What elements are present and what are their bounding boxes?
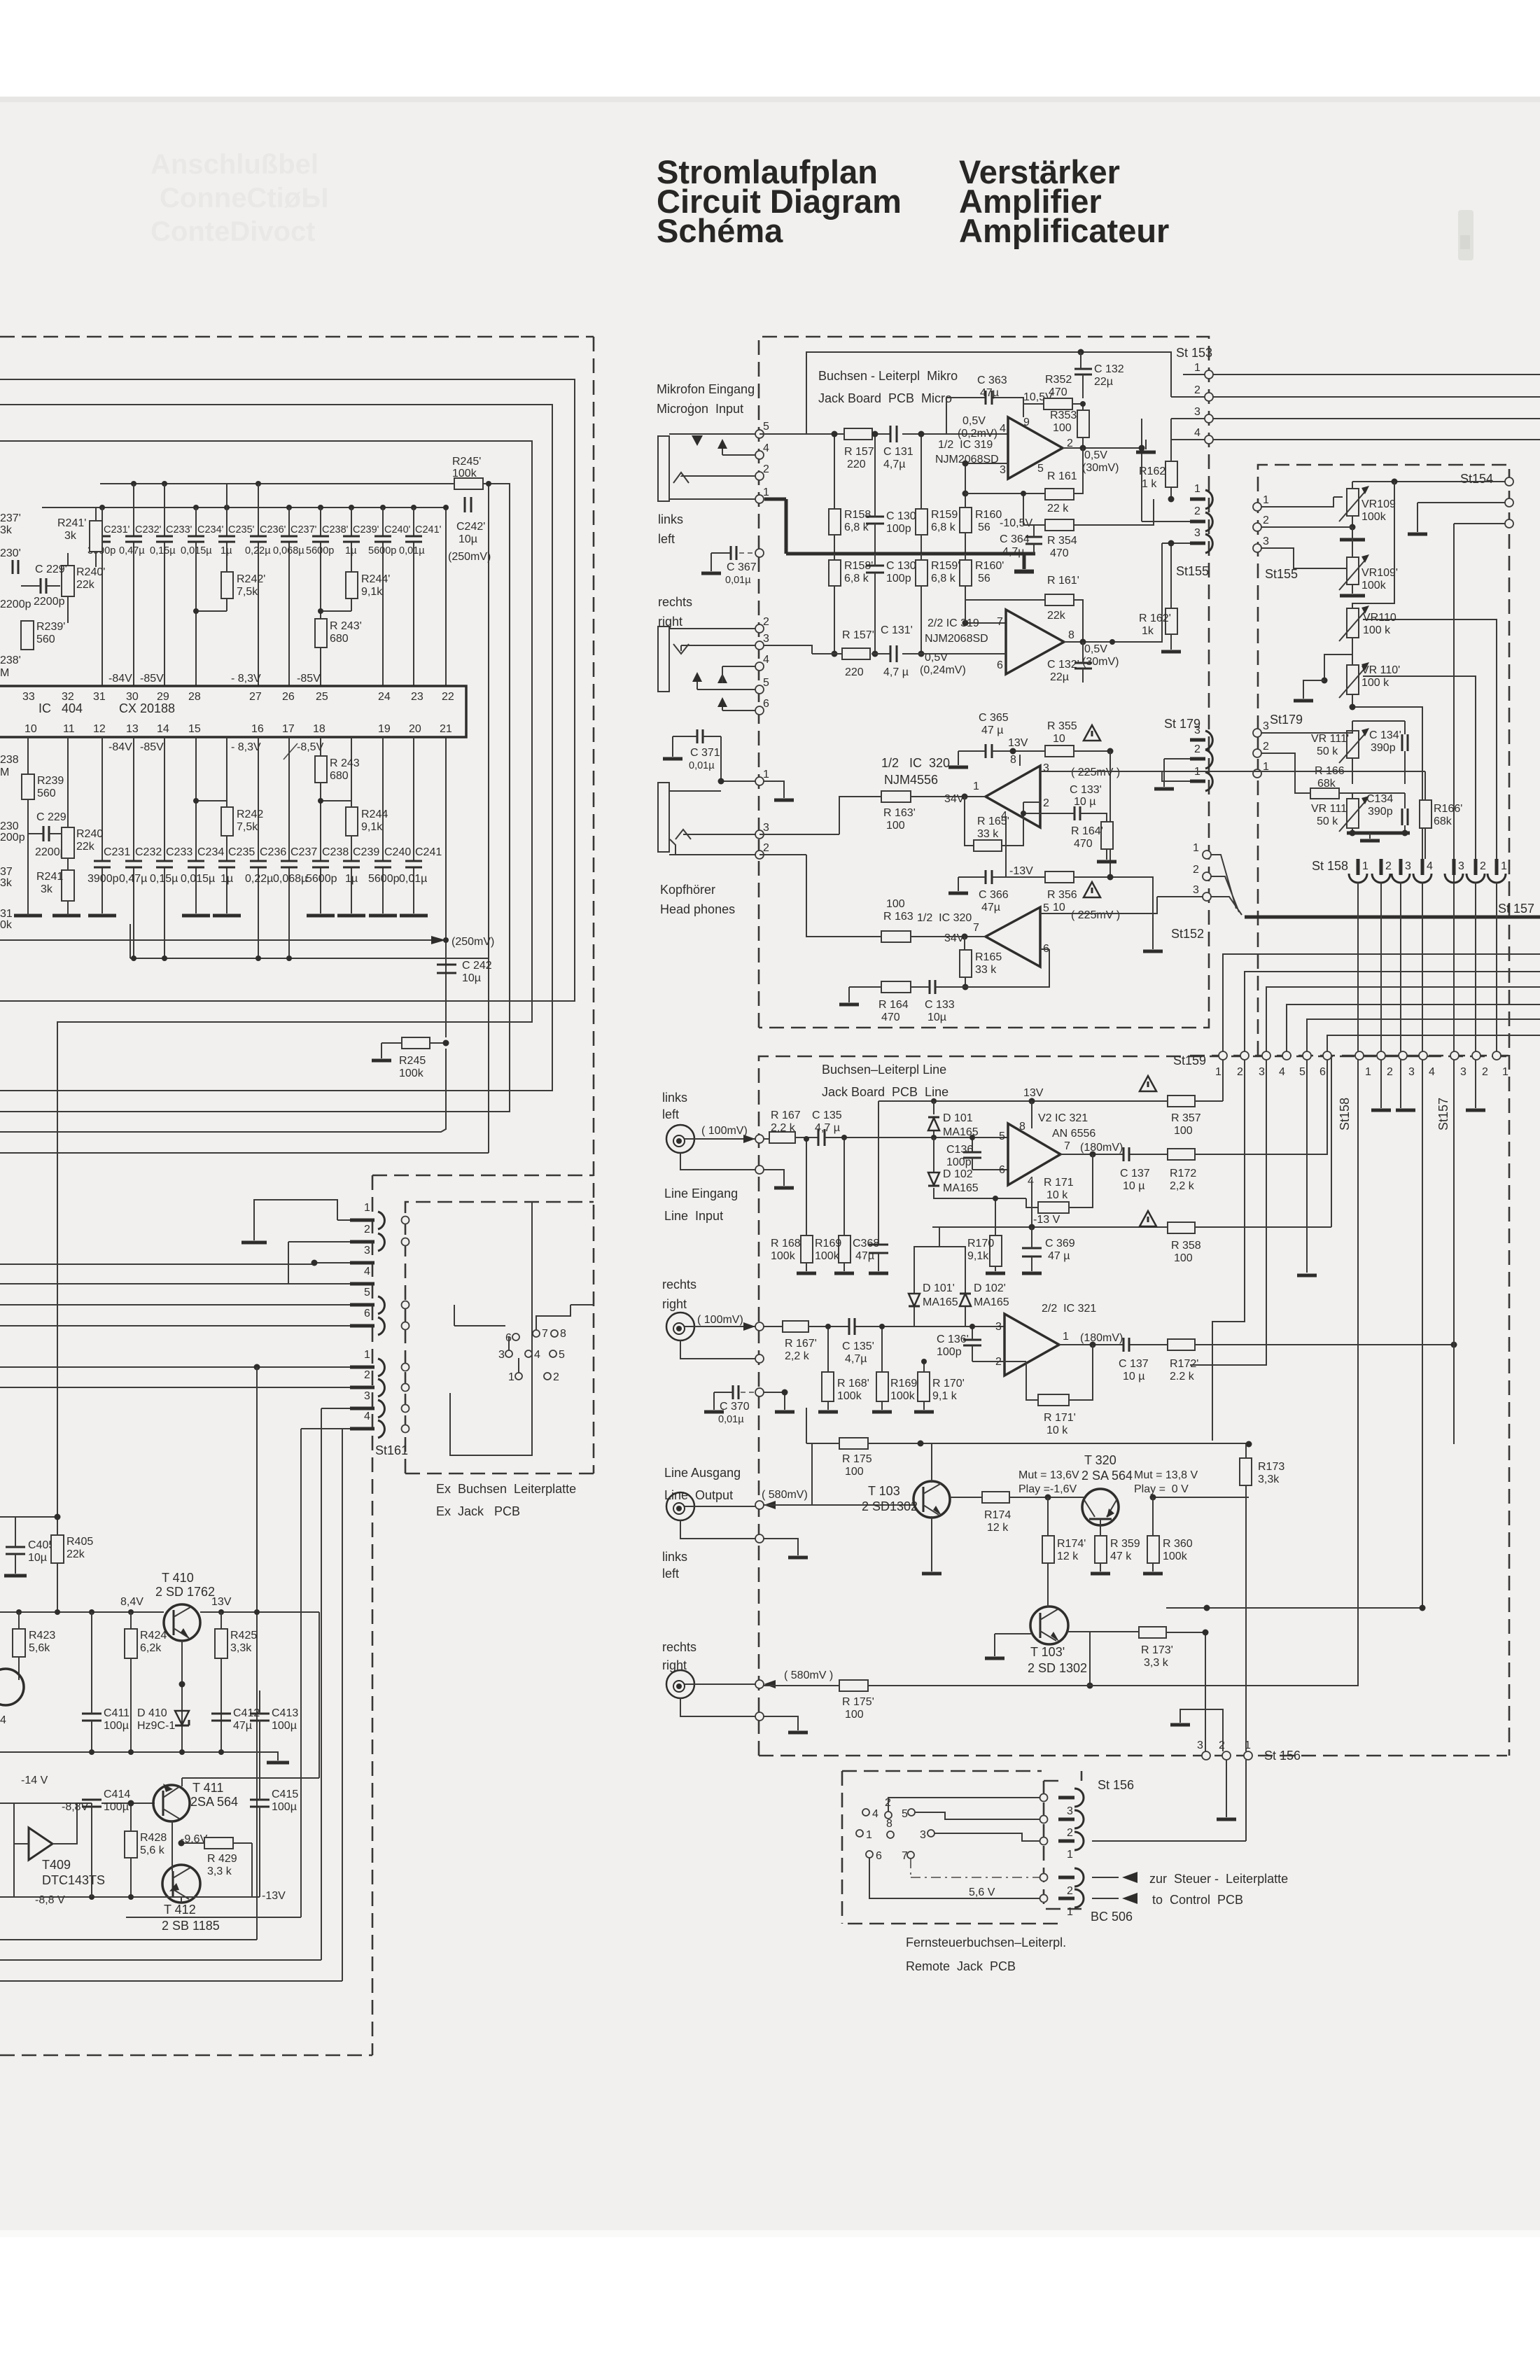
svg-text:D 102': D 102' bbox=[974, 1282, 1006, 1294]
svg-text:100k: 100k bbox=[1361, 511, 1387, 523]
svg-text:0,47µ: 0,47µ bbox=[119, 873, 147, 885]
svg-text:(0,2mV): (0,2mV) bbox=[958, 428, 997, 440]
svg-text:V2 IC 321: V2 IC 321 bbox=[1038, 1112, 1088, 1124]
svg-text:St155: St155 bbox=[1265, 567, 1298, 581]
svg-text:3: 3 bbox=[364, 1390, 370, 1402]
svg-text:C241: C241 bbox=[415, 846, 442, 858]
580mV node riser bbox=[764, 1443, 913, 1505]
svg-text:C 229: C 229 bbox=[36, 811, 66, 823]
svg-text:5: 5 bbox=[763, 677, 769, 689]
T410 emitter drop bbox=[179, 1641, 185, 1752]
svg-text:C 133': C 133' bbox=[1070, 784, 1102, 796]
R242' jog wire bbox=[196, 610, 227, 612]
svg-text:C136: C136 bbox=[946, 1144, 973, 1156]
svg-text:100µ: 100µ bbox=[104, 1801, 129, 1813]
svg-text:C415: C415 bbox=[272, 1788, 298, 1800]
svg-text:Jack Board PCB Line: Jack Board PCB Line bbox=[822, 1085, 948, 1099]
svg-text:3: 3 bbox=[1197, 1739, 1203, 1751]
capacitor C237' bbox=[273, 524, 317, 556]
C371 cap bbox=[673, 729, 721, 781]
svg-text:links: links bbox=[662, 1091, 687, 1105]
R244 jog wire bbox=[321, 801, 351, 807]
svg-text:230': 230' bbox=[0, 547, 21, 559]
svg-text:( 100mV): ( 100mV) bbox=[697, 1314, 743, 1326]
svg-text:2: 2 bbox=[1193, 864, 1199, 876]
left dashed box bottom edge bbox=[0, 2054, 372, 2057]
svg-text:VR110: VR110 bbox=[1363, 612, 1396, 624]
R357 riser to pin1 bbox=[1222, 1060, 1224, 1101]
svg-text:Mut = 13,6V: Mut = 13,6V bbox=[1018, 1469, 1079, 1481]
C136 cap bbox=[946, 1135, 1008, 1170]
R157 resistor bbox=[844, 428, 874, 470]
svg-text:C233: C233 bbox=[166, 846, 192, 858]
svg-text:2,2 k: 2,2 k bbox=[1170, 1180, 1195, 1192]
R174' resistor bbox=[1042, 1497, 1086, 1607]
svg-text:5600p: 5600p bbox=[306, 545, 334, 556]
connector footprint circles 3 4 5 bbox=[498, 1349, 565, 1361]
warning triangle mid bbox=[1140, 1211, 1156, 1226]
svg-text:St 156: St 156 bbox=[1098, 1778, 1134, 1792]
R162 resistor bbox=[1139, 440, 1177, 503]
bottom rail bbox=[0, 1894, 260, 1900]
wire bus D with R245' bbox=[0, 484, 510, 1112]
svg-text:1: 1 bbox=[1067, 1906, 1073, 1918]
svg-text:Fernsteuerbuchsen–Leiterpl.: Fernsteuerbuchsen–Leiterpl. bbox=[906, 1935, 1066, 1949]
svg-text:3: 3 bbox=[364, 1245, 370, 1256]
svg-text:56: 56 bbox=[978, 573, 990, 584]
St161 pin 2' bbox=[0, 1369, 384, 1396]
cut labels left edge top bbox=[0, 512, 21, 679]
C130' cap bbox=[866, 554, 918, 657]
svg-text:( 225mV ): ( 225mV ) bbox=[1071, 909, 1120, 921]
C371 ground bbox=[663, 736, 682, 759]
amp1 output wire bbox=[1063, 419, 1145, 521]
C413 cap bbox=[250, 1690, 298, 1752]
svg-text:links: links bbox=[662, 1550, 687, 1564]
svg-text:5,6k: 5,6k bbox=[29, 1642, 50, 1654]
svg-text:3: 3 bbox=[1263, 535, 1269, 547]
svg-text:6: 6 bbox=[876, 1850, 882, 1862]
svg-text:4: 4 bbox=[364, 1410, 370, 1422]
amp4 out to right bbox=[1040, 897, 1203, 913]
svg-text:Hz9C-1: Hz9C-1 bbox=[137, 1720, 175, 1732]
nested closing line 3 bbox=[0, 1959, 321, 1961]
R172 resistor bbox=[1168, 1056, 1327, 1192]
links left label bbox=[662, 1091, 687, 1121]
VR111 pot bbox=[1311, 796, 1369, 833]
svg-text:C241': C241' bbox=[415, 524, 442, 535]
svg-text:Head phones: Head phones bbox=[660, 902, 735, 916]
svg-text:R 168: R 168 bbox=[771, 1238, 801, 1249]
warning triangle upper bbox=[1084, 725, 1100, 741]
svg-text:R 161': R 161' bbox=[1047, 575, 1079, 587]
St158 jack 4 bbox=[1413, 859, 1433, 883]
remote jack 1 bbox=[1058, 1832, 1084, 1861]
D101 diode bbox=[928, 1101, 979, 1140]
St161 pin 3' bbox=[321, 1390, 384, 1449]
svg-text:10µ: 10µ bbox=[28, 1552, 47, 1564]
svg-text:47µ: 47µ bbox=[855, 1250, 874, 1262]
svg-text:R 175: R 175 bbox=[842, 1453, 872, 1465]
svg-text:R 243: R 243 bbox=[330, 757, 360, 769]
svg-text:C 137: C 137 bbox=[1120, 1168, 1150, 1179]
svg-text:2: 2 bbox=[1482, 1066, 1488, 1078]
svg-text:Kopfhörer: Kopfhörer bbox=[660, 883, 715, 897]
resistor R242' bbox=[221, 572, 265, 598]
svg-text:2: 2 bbox=[1043, 797, 1049, 809]
switch circle 3 bbox=[920, 1829, 1040, 1841]
svg-text:R 171': R 171' bbox=[1044, 1412, 1076, 1424]
svg-text:R 163': R 163' bbox=[883, 807, 916, 819]
R166 resistor bbox=[1261, 753, 1352, 799]
svg-text:3,3k: 3,3k bbox=[230, 1642, 252, 1654]
(100mV) label R bbox=[694, 1314, 764, 1331]
R166' resistor bbox=[1420, 771, 1462, 859]
svg-text:R160: R160 bbox=[975, 509, 1002, 521]
svg-text:(180mV): (180mV) bbox=[1080, 1332, 1123, 1344]
svg-text:237': 237' bbox=[0, 512, 21, 524]
svg-text:R240: R240 bbox=[76, 828, 103, 840]
svg-text:St155: St155 bbox=[1176, 564, 1209, 578]
svg-text:0,01µ: 0,01µ bbox=[689, 760, 715, 771]
svg-text:2 SD1302: 2 SD1302 bbox=[862, 1499, 918, 1513]
connector footprint circles 1 2 bbox=[508, 1371, 559, 1383]
T412 transistor bbox=[162, 1821, 220, 1933]
svg-text:R170: R170 bbox=[967, 1238, 994, 1249]
svg-text:22: 22 bbox=[442, 691, 454, 703]
headphone pin1 wire bbox=[669, 778, 794, 801]
svg-text:0,015µ: 0,015µ bbox=[181, 545, 212, 556]
svg-text:C237: C237 bbox=[290, 846, 317, 858]
RCA jack line out L bbox=[666, 1492, 694, 1520]
svg-text:0,015µ: 0,015µ bbox=[181, 873, 215, 885]
svg-text:R241': R241' bbox=[57, 517, 86, 529]
R358 resistor bbox=[1168, 1222, 1201, 1264]
svg-text:C 134': C 134' bbox=[1369, 729, 1401, 741]
svg-text:8,4V: 8,4V bbox=[120, 1596, 143, 1608]
svg-text:100k: 100k bbox=[815, 1250, 840, 1262]
pin2 lower ground bbox=[1217, 1760, 1236, 1819]
svg-text:R 161: R 161 bbox=[1047, 470, 1077, 482]
svg-text:0,01µ: 0,01µ bbox=[399, 873, 427, 885]
svg-text:C 369: C 369 bbox=[1045, 1238, 1075, 1249]
svg-text:3,3 k: 3,3 k bbox=[1144, 1657, 1169, 1669]
St158 jack 3 bbox=[1392, 859, 1411, 883]
T411 top feed bbox=[182, 1752, 319, 1786]
svg-text:VR 111': VR 111' bbox=[1311, 733, 1349, 745]
transistor T408 cut bbox=[0, 1669, 24, 1726]
svg-text:2: 2 bbox=[1194, 384, 1200, 396]
svg-text:7: 7 bbox=[1064, 1140, 1070, 1152]
svg-text:9: 9 bbox=[1023, 416, 1030, 428]
svg-text:26: 26 bbox=[282, 691, 295, 703]
switch circle 4 bbox=[862, 1808, 878, 1820]
VR111' pot bbox=[1261, 728, 1369, 784]
R425 resistor bbox=[215, 1612, 257, 1752]
ghost bleed-through text top-left bbox=[150, 149, 328, 247]
13V rail bbox=[878, 1087, 1223, 1105]
R158 resistor bbox=[829, 431, 871, 554]
capacitor C233' bbox=[150, 524, 192, 556]
Line dashed box bbox=[759, 1056, 1507, 1756]
T409 inverter triangle bbox=[14, 1803, 105, 1897]
svg-text:3: 3 bbox=[1458, 860, 1464, 872]
svg-text:2: 2 bbox=[1387, 1066, 1393, 1078]
svg-text:C232': C232' bbox=[135, 524, 162, 535]
svg-text:1: 1 bbox=[1194, 362, 1200, 374]
svg-text:4: 4 bbox=[1194, 427, 1200, 439]
svg-text:C236': C236' bbox=[260, 524, 286, 535]
svg-text:4: 4 bbox=[364, 1266, 370, 1277]
pin 2 wire bbox=[681, 476, 755, 477]
capacitor C242' bbox=[448, 497, 491, 563]
svg-text:4,7µ: 4,7µ bbox=[1002, 546, 1024, 558]
R171' feedback bbox=[1004, 1345, 1093, 1436]
VR110' out bbox=[1350, 704, 1423, 860]
R352 resistor bbox=[1023, 374, 1083, 409]
svg-text:3: 3 bbox=[1460, 1066, 1466, 1078]
resistor R239 bbox=[22, 737, 64, 916]
inner dashed pin circles bbox=[402, 1217, 409, 1433]
svg-text:ConneCtiøЫ: ConneCtiøЫ bbox=[160, 183, 328, 213]
svg-text:R244': R244' bbox=[361, 573, 390, 585]
R162 ground bbox=[1136, 440, 1156, 452]
resistor R240 bbox=[62, 737, 103, 916]
svg-text:1µ: 1µ bbox=[220, 873, 233, 885]
svg-text:R 354: R 354 bbox=[1047, 535, 1077, 547]
svg-text:1: 1 bbox=[1194, 483, 1200, 495]
svg-text:R242: R242 bbox=[237, 808, 263, 820]
svg-text:3: 3 bbox=[763, 822, 769, 834]
St155 pin3 wire bbox=[1261, 548, 1347, 584]
resistor R245 bbox=[381, 1037, 449, 1079]
C365 ground bbox=[948, 751, 968, 767]
St155 jack 2 bbox=[1142, 505, 1212, 531]
svg-text:4: 4 bbox=[1427, 860, 1433, 872]
svg-text:-8,5V: -8,5V bbox=[297, 741, 324, 753]
svg-text:13V: 13V bbox=[1008, 737, 1028, 749]
svg-text:3900p: 3900p bbox=[87, 873, 119, 885]
svg-text:3: 3 bbox=[1193, 884, 1199, 896]
C366 ground bbox=[948, 877, 968, 893]
svg-text:22 k: 22 k bbox=[1047, 503, 1069, 514]
svg-text:56: 56 bbox=[978, 521, 990, 533]
svg-text:left: left bbox=[662, 1107, 679, 1121]
svg-text:100: 100 bbox=[886, 898, 905, 910]
warning triangle lower bbox=[1084, 882, 1100, 897]
svg-text:2: 2 bbox=[364, 1224, 370, 1235]
svg-text:10: 10 bbox=[1053, 902, 1065, 913]
svg-text:0,01µ: 0,01µ bbox=[718, 1414, 744, 1425]
svg-text:2: 2 bbox=[1067, 1827, 1073, 1839]
C133' cap bbox=[1021, 784, 1107, 822]
resistor R241' bbox=[57, 507, 102, 567]
svg-text:1: 1 bbox=[364, 1349, 370, 1361]
R359 resistor bbox=[1091, 1536, 1140, 1574]
right jack wires bbox=[669, 629, 755, 710]
amp3 supply stubs bbox=[1006, 755, 1020, 877]
svg-text:D 410: D 410 bbox=[137, 1707, 167, 1719]
resistor R241 bbox=[36, 870, 74, 901]
C364 cap bbox=[1000, 525, 1042, 558]
svg-text:1µ: 1µ bbox=[220, 545, 232, 556]
wire bus E second cap bus bbox=[42, 507, 446, 508]
svg-text:220: 220 bbox=[845, 666, 864, 678]
Kopfhörer labels bbox=[660, 883, 735, 916]
svg-text:22k: 22k bbox=[76, 579, 95, 591]
svg-text:Line Ausgang: Line Ausgang bbox=[664, 1466, 741, 1480]
C130 cap bbox=[866, 431, 916, 554]
svg-text:34V: 34V bbox=[944, 793, 965, 805]
svg-text:6,8 k: 6,8 k bbox=[844, 573, 869, 584]
amp4 feedback loop bbox=[965, 949, 1049, 987]
svg-text:9,1k: 9,1k bbox=[967, 1250, 989, 1262]
svg-text:4: 4 bbox=[1429, 1066, 1435, 1078]
capacitor C240' bbox=[368, 524, 411, 556]
inner dashed circles bbox=[1040, 1794, 1048, 1903]
fan line 1 bbox=[1223, 954, 1540, 1051]
capacitor C234' bbox=[181, 524, 224, 556]
svg-text:1: 1 bbox=[1365, 1066, 1371, 1078]
cut labels left edge bottom bbox=[0, 754, 25, 931]
St161 pin 5 bbox=[0, 1287, 384, 1314]
svg-text:100k: 100k bbox=[837, 1390, 862, 1402]
transistor T410 bbox=[155, 1571, 215, 1641]
svg-text:25: 25 bbox=[316, 691, 328, 703]
svg-text:7,5k: 7,5k bbox=[237, 586, 258, 598]
svg-text:1µ: 1µ bbox=[345, 545, 357, 556]
svg-text:100: 100 bbox=[1053, 422, 1072, 434]
svg-text:rechts: rechts bbox=[662, 1277, 696, 1291]
svg-text:R245: R245 bbox=[399, 1055, 426, 1067]
R161' feedback resistor bbox=[965, 575, 1083, 642]
svg-text:2: 2 bbox=[1219, 1739, 1225, 1751]
svg-text:100p: 100p bbox=[886, 573, 911, 584]
svg-text:R240': R240' bbox=[76, 566, 105, 578]
Fernsteuerbuchsen label bbox=[906, 1935, 1066, 1973]
svg-text:T 411: T 411 bbox=[192, 1781, 223, 1795]
T320 transistor bbox=[1081, 1453, 1133, 1536]
line R input wire bbox=[764, 1326, 1004, 1327]
R175 resistor bbox=[839, 1438, 872, 1478]
svg-text:-13V: -13V bbox=[1009, 865, 1033, 877]
R167 resistor bbox=[764, 1109, 818, 1143]
svg-text:R 164': R 164' bbox=[1071, 825, 1103, 837]
svg-text:C240: C240 bbox=[384, 846, 411, 858]
svg-text:R405: R405 bbox=[66, 1536, 93, 1548]
R429 resistor bbox=[178, 1837, 253, 1897]
svg-text:C234': C234' bbox=[197, 524, 224, 535]
T103' emitter ground bbox=[985, 1634, 1031, 1658]
svg-text:C231: C231 bbox=[104, 846, 130, 858]
svg-text:3: 3 bbox=[920, 1829, 926, 1841]
svg-text:-85V: -85V bbox=[297, 673, 321, 685]
R158' resistor bbox=[829, 554, 873, 657]
svg-text:33: 33 bbox=[22, 691, 35, 703]
right jack switch arrows bbox=[692, 666, 727, 710]
svg-text:( 100mV): ( 100mV) bbox=[701, 1125, 748, 1137]
svg-text:2 SD 1762: 2 SD 1762 bbox=[155, 1585, 215, 1599]
svg-text:5,6 k: 5,6 k bbox=[140, 1844, 165, 1856]
svg-text:- 8,3V: - 8,3V bbox=[231, 673, 261, 685]
svg-text:50 k: 50 k bbox=[1317, 815, 1338, 827]
vertical feed x489 bbox=[342, 1429, 350, 1981]
svg-text:R158: R158 bbox=[844, 509, 871, 521]
svg-text:links: links bbox=[658, 512, 683, 526]
grounds under St158 bbox=[1371, 1109, 1485, 1112]
svg-text:R 359: R 359 bbox=[1110, 1538, 1140, 1550]
Buchsen-Leiterpl Line label bbox=[822, 1063, 948, 1099]
svg-text:C239: C239 bbox=[353, 846, 379, 858]
switch circle 8 bbox=[886, 1818, 894, 1838]
svg-text:1: 1 bbox=[508, 1371, 514, 1383]
svg-text:MA165: MA165 bbox=[943, 1182, 979, 1194]
mic input wire left bbox=[759, 433, 1008, 435]
resistor R244 bbox=[346, 807, 388, 836]
svg-text:470: 470 bbox=[1049, 386, 1067, 398]
svg-text:3: 3 bbox=[995, 1321, 1002, 1333]
rail ground bbox=[267, 1761, 289, 1765]
svg-text:470: 470 bbox=[1050, 547, 1069, 559]
svg-text:22k: 22k bbox=[66, 1548, 85, 1560]
left dashed box step edge bbox=[372, 1175, 594, 1177]
svg-text:C237': C237' bbox=[290, 524, 317, 535]
C132 cap bbox=[1074, 352, 1124, 398]
svg-text:Amplificateur: Amplificateur bbox=[959, 212, 1169, 249]
svg-text:2/2 IC 321: 2/2 IC 321 bbox=[1042, 1303, 1096, 1315]
svg-text:1: 1 bbox=[1067, 1849, 1073, 1861]
Mut Play labels right bbox=[1134, 1469, 1198, 1495]
VR110 feed bbox=[1352, 482, 1394, 608]
capacitor C230' cut bbox=[0, 547, 31, 610]
svg-text:-13 V: -13 V bbox=[1033, 1214, 1060, 1226]
svg-text:5: 5 bbox=[763, 421, 769, 433]
remote jack 3 bbox=[1058, 1788, 1084, 1817]
svg-text:C413: C413 bbox=[272, 1707, 298, 1719]
top capacitor column leads bbox=[102, 484, 414, 686]
svg-text:0,5V: 0,5V bbox=[1084, 643, 1107, 655]
capacitor C231' bbox=[87, 524, 130, 556]
rechts right label bbox=[658, 595, 692, 629]
op-amp IC319a bbox=[935, 415, 1073, 479]
svg-text:-13V: -13V bbox=[262, 1890, 286, 1902]
St159 dashed row bbox=[1190, 1055, 1509, 1057]
svg-text:2.2 k: 2.2 k bbox=[1170, 1371, 1195, 1382]
switch circle 6 bbox=[866, 1850, 1040, 1898]
svg-text:7: 7 bbox=[973, 922, 979, 934]
fan line 5 bbox=[1307, 1019, 1540, 1051]
capacitor C242 electrolytic bbox=[437, 960, 492, 984]
svg-text:C 135: C 135 bbox=[812, 1109, 842, 1121]
C134' cap bbox=[1352, 721, 1408, 784]
svg-text:R169': R169' bbox=[890, 1378, 919, 1389]
svg-text:5: 5 bbox=[1299, 1066, 1305, 1078]
R159' resistor bbox=[916, 554, 960, 657]
svg-text:47µ: 47µ bbox=[980, 387, 999, 399]
svg-text:16: 16 bbox=[251, 723, 264, 735]
Mut Play labels left bbox=[1018, 1469, 1079, 1495]
svg-text:100: 100 bbox=[845, 1709, 864, 1721]
svg-text:0,01µ: 0,01µ bbox=[399, 545, 425, 556]
svg-text:M: M bbox=[0, 667, 9, 679]
svg-text:R 243': R 243' bbox=[330, 620, 362, 632]
remote jack 1b bbox=[1058, 1889, 1084, 1918]
svg-text:T 410: T 410 bbox=[162, 1571, 194, 1585]
svg-text:4: 4 bbox=[763, 654, 769, 666]
St152 pins right bbox=[1193, 842, 1211, 901]
headphone pins bbox=[755, 769, 769, 859]
mic jack tip mark bbox=[673, 472, 689, 483]
